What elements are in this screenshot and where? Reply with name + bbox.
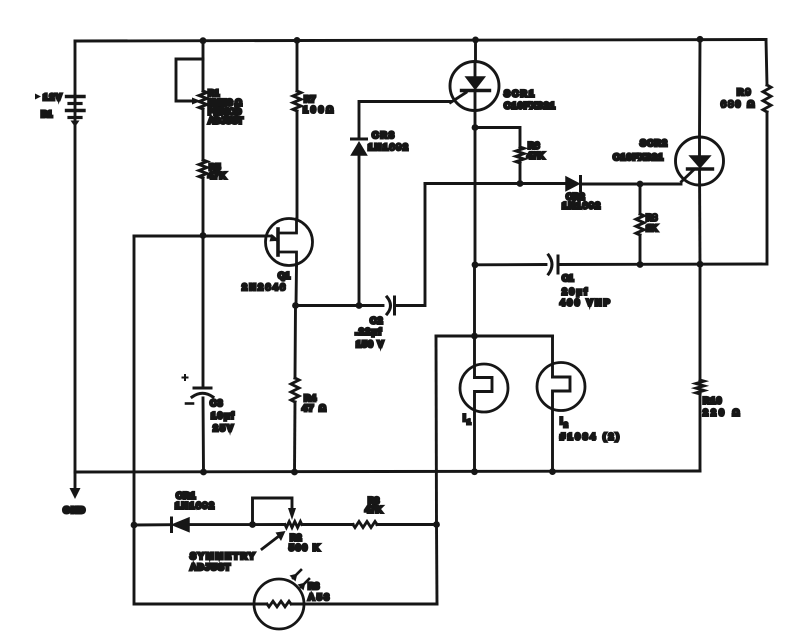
svg-text:47 Ω: 47 Ω — [302, 403, 327, 413]
wire: R7 down to Q1 base-2 — [296, 111, 299, 219]
svg-text:A53: A53 — [308, 592, 332, 602]
svg-text:150 V: 150 V — [356, 339, 385, 349]
wire: R5 down to C3 — [202, 178, 205, 386]
diode CR2 — [566, 177, 581, 192]
label battery: +12V — [35, 92, 63, 102]
svg-text:SCR2: SCR2 — [640, 138, 668, 148]
svg-text:R8: R8 — [646, 213, 657, 223]
junction: SCR2 cathode at C1 line — [697, 261, 704, 268]
junction: symmetry line right end — [433, 521, 440, 528]
svg-text:CR3: CR3 — [372, 130, 396, 140]
svg-text:1N1692: 1N1692 — [368, 142, 410, 152]
svg-text:.22µf: .22µf — [355, 327, 383, 337]
resistor R7 — [293, 91, 301, 111]
resistor R10 — [696, 264, 704, 471]
wire: symmetry corner down to photocell line — [435, 525, 438, 605]
wire: R3 to right corner — [377, 523, 437, 526]
wire: top rail to battery positive — [74, 41, 77, 96]
svg-text:ADJUST: ADJUST — [208, 116, 244, 126]
svg-text:1: 1 — [467, 419, 471, 426]
svg-text:1N1692: 1N1692 — [175, 501, 216, 511]
svg-text:C10FX321: C10FX321 — [613, 152, 664, 162]
resistor R1 (1 MEG period adjust rheostat) — [199, 91, 207, 109]
diode CR3 — [352, 139, 367, 155]
wire: C1 line left segment — [475, 263, 546, 266]
svg-text:R10: R10 — [703, 396, 723, 406]
wire: C3 to ground rail — [202, 398, 205, 472]
svg-text:CR1: CR1 — [176, 491, 196, 501]
junction: R6 tap on SCR1 cathode — [472, 124, 479, 131]
wire: Q1 base-1 down to pulse node — [295, 266, 298, 307]
junction: lamp feed at lamp bus — [471, 333, 478, 340]
svg-text:Q1: Q1 — [278, 271, 290, 281]
svg-text:ADJUST: ADJUST — [190, 562, 231, 572]
wire: SCR2 cathode down to C1 line — [698, 169, 701, 264]
light arrows into photocell — [290, 570, 310, 591]
wire: R2 to R3 — [302, 523, 353, 526]
svg-text:R2: R2 — [290, 533, 302, 543]
SCR1 C10FX321 — [450, 62, 499, 111]
svg-text:#1034 (2): #1034 (2) — [560, 432, 622, 442]
svg-text:R4: R4 — [304, 393, 317, 403]
svg-text:220 Ω: 220 Ω — [703, 408, 742, 418]
svg-text:1N1692: 1N1692 — [562, 201, 602, 211]
wire: top rail down to R7 — [296, 40, 299, 91]
resistor R9 — [763, 40, 771, 113]
svg-text:47K: 47K — [365, 505, 383, 515]
wire: top rail to SCR2 anode — [698, 40, 701, 139]
svg-text:20µf: 20µf — [562, 287, 589, 297]
svg-text:400 VNP: 400 VNP — [560, 298, 612, 308]
svg-text:I: I — [560, 416, 563, 427]
junction: CR3 at pulse wire — [356, 302, 363, 309]
resistor R3 — [353, 522, 377, 528]
wire: top rail to SCR1 anode — [474, 40, 477, 61]
wire: top rail down to R1 — [202, 41, 205, 91]
diode CR1 — [172, 518, 190, 532]
svg-text:C3: C3 — [210, 398, 224, 408]
resistor R2 element — [285, 522, 302, 528]
svg-text:R3: R3 — [308, 581, 319, 591]
lamp I2 — [537, 336, 585, 472]
svg-text:R7: R7 — [304, 94, 316, 104]
resistor R6 — [475, 128, 524, 184]
svg-text:R6: R6 — [528, 141, 540, 151]
capacitor C2 — [387, 297, 395, 314]
svg-text:12V: 12V — [43, 92, 63, 102]
wire: pulse node to C2 — [296, 304, 384, 307]
svg-text:10µf: 10µf — [211, 411, 235, 421]
svg-text:2N2646: 2N2646 — [242, 282, 288, 292]
wire: C2 right plate to gate line corner — [395, 184, 426, 306]
wire: CR2 cathode to SCR2 gate — [581, 183, 682, 186]
lamp I1 — [460, 265, 508, 472]
wire: gate line to CR2 anode — [425, 182, 566, 185]
junction: C1 line at SCR1 cathode — [472, 261, 479, 268]
junction: B1 pulse node — [292, 302, 299, 309]
svg-text:1K: 1K — [646, 223, 658, 233]
junction: SCR1 anode at top rail — [472, 37, 479, 44]
svg-text:C2: C2 — [370, 316, 384, 326]
svg-text:C10FX321: C10FX321 — [504, 101, 556, 111]
battery B1 — [67, 95, 85, 127]
svg-text:SYMMETRY: SYMMETRY — [190, 551, 257, 561]
ground symbol — [70, 472, 81, 499]
wire: C1 line right segment to R9 bottom corner — [558, 112, 767, 265]
junction: lamp I1 at ground rail — [471, 468, 478, 475]
potentiometer R1 wiper loop — [176, 59, 203, 105]
SCR2 C10FX321 — [676, 137, 724, 185]
wire: symmetry line to CR1 — [134, 523, 171, 526]
photocell R3 A53 — [254, 579, 304, 629]
resistor R5 — [199, 160, 207, 178]
svg-text:47K: 47K — [527, 151, 545, 161]
ground rail wire — [75, 471, 700, 472]
svg-text:500 K: 500 K — [289, 543, 321, 553]
junction: R8 top at gate wire — [637, 181, 644, 188]
junction: SCR2 anode at top rail — [697, 36, 704, 43]
resistor R8 — [636, 184, 644, 265]
svg-text:2: 2 — [564, 422, 568, 429]
wire: SCR1 cathode down to C1 node — [474, 91, 477, 266]
wire: photocell line right segment — [292, 603, 437, 606]
pointer arrow: symmetry adjust to R2 wiper — [262, 531, 286, 549]
capacitor C1 — [549, 255, 559, 274]
wire: Q1 emitter to left vertical — [134, 235, 266, 238]
resistor R4 — [291, 306, 299, 473]
wire: CR3 anode down to pulse wire — [358, 155, 361, 306]
wire: battery negative down to ground rail — [74, 122, 77, 472]
svg-text:R1: R1 — [208, 88, 219, 98]
wire: emitter line down left side to symmetry network — [133, 236, 136, 525]
wire: photocell line left segment — [134, 525, 266, 604]
svg-text:B1: B1 — [41, 109, 52, 119]
potentiometer R2 wiper loop — [253, 498, 297, 525]
junction: R4 line at ground rail — [291, 469, 298, 476]
svg-text:25V: 25V — [213, 423, 235, 433]
svg-text:I: I — [463, 413, 466, 424]
capacitor C3 (electrolytic 10uf) — [183, 375, 214, 404]
wire: +12V top supply rail — [75, 40, 766, 42]
transistor Q1 unijunction 2N2646 — [266, 219, 313, 266]
wire: CR3 cathode up and right to SCR1 gate — [359, 102, 451, 140]
svg-text:680 Ω: 680 Ω — [721, 99, 756, 109]
junction: R8 bottom at C1 line — [637, 261, 644, 268]
junction: C3 line at ground rail — [200, 469, 207, 476]
wire: CR1 to R2 tap — [189, 523, 284, 526]
wire: lamp bus — [436, 335, 553, 338]
junction: R1 line at top rail — [200, 37, 207, 44]
svg-text:R9: R9 — [737, 87, 753, 97]
svg-text:47K: 47K — [208, 171, 227, 181]
junction: R2 left tap — [249, 521, 256, 528]
junction: lamp I2 at ground rail — [549, 468, 556, 475]
wire: R1 to R5 — [202, 109, 205, 160]
junction: R6 bottom at gate line — [517, 180, 524, 187]
wire: lamp bus left corner down to symmetry line — [435, 336, 438, 525]
junction: R7 line at top rail — [294, 37, 301, 44]
svg-text:C1: C1 — [562, 273, 574, 283]
junction: emitter wire at R5/C3 line — [200, 232, 207, 239]
junction: symmetry line left end — [131, 522, 138, 529]
svg-text:SCR1: SCR1 — [504, 89, 536, 99]
svg-text:GND: GND — [63, 505, 86, 515]
svg-text:100Ω: 100Ω — [303, 105, 336, 115]
